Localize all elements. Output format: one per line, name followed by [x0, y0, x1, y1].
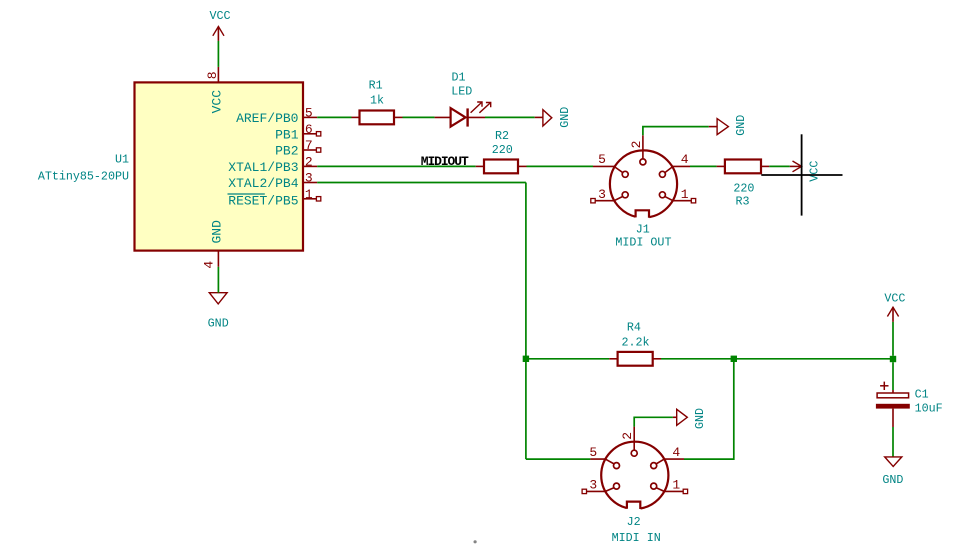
wire U1 pin3 XTAL2 horizontal	[317, 182, 526, 184]
wire R1 to D1	[403, 116, 435, 118]
wire bus down to J2 pin 5	[526, 458, 591, 460]
svg-text:D1: D1	[451, 71, 465, 85]
wire R2 to J1 pin 5	[527, 165, 594, 167]
svg-text:4: 4	[202, 261, 217, 269]
svg-text:XTAL2/PB4: XTAL2/PB4	[228, 176, 298, 191]
power symbol GND (above J2)	[673, 408, 707, 429]
svg-text:VCC: VCC	[884, 292, 905, 306]
svg-text:GND: GND	[558, 107, 572, 128]
connector J1 MIDI OUT (DIN-5)	[591, 135, 696, 249]
wire bus down to J2 pin 4	[684, 359, 734, 459]
svg-text:2: 2	[620, 432, 635, 440]
origin dot	[474, 540, 477, 543]
svg-text:1: 1	[681, 187, 689, 202]
U1 pin 8 VCC (top)	[205, 67, 220, 83]
wire J1 pin4 to R3	[690, 165, 717, 167]
svg-text:2: 2	[305, 155, 313, 170]
U1 pin 3 XTAL2/PB4	[228, 171, 317, 191]
U1 pin 7 PB2 (unconnected square)	[275, 138, 321, 158]
wire U1 pin5 to R1	[317, 116, 351, 118]
svg-text:3: 3	[598, 187, 606, 202]
power symbol GND (right of D1)	[535, 107, 572, 128]
svg-text:XTAL1/PB3: XTAL1/PB3	[228, 160, 298, 175]
svg-text:2: 2	[629, 141, 644, 149]
wire VCC to U1 pin 8	[217, 41, 219, 67]
svg-text:220: 220	[733, 182, 754, 196]
svg-text:U1: U1	[115, 153, 129, 167]
junction (525.9,358.8)	[523, 356, 529, 362]
svg-text:AREF/PB0: AREF/PB0	[236, 111, 298, 126]
resistor R2 220	[476, 129, 527, 173]
svg-text:5: 5	[598, 152, 606, 167]
junction (893,358.8)	[890, 356, 896, 362]
U1 pin 1 RESET/PB5 (unconnected square)	[228, 187, 321, 208]
svg-text:10uF: 10uF	[915, 402, 943, 416]
wire U1 pin 4 to GND	[217, 267, 219, 293]
wire R3 to VCC	[769, 165, 790, 167]
svg-text:R3: R3	[735, 195, 749, 209]
wire bottom bus right segment R4 to C1	[661, 358, 893, 360]
svg-text:MIDI IN: MIDI IN	[612, 531, 661, 545]
svg-text:GND: GND	[734, 115, 748, 136]
svg-text:J2: J2	[627, 515, 641, 529]
LED D1	[435, 71, 491, 127]
svg-text:1: 1	[672, 478, 680, 493]
resistor R1 1k	[352, 78, 403, 124]
wire vertical left drop to bottom bus	[525, 183, 527, 460]
svg-text:GND: GND	[210, 220, 225, 244]
svg-text:R1: R1	[369, 78, 383, 92]
graphic line vertical (black)	[801, 134, 803, 215]
graphic line horizontal (black)	[761, 174, 842, 176]
svg-text:5: 5	[305, 106, 313, 121]
svg-text:1k: 1k	[370, 93, 384, 107]
svg-text:R2: R2	[495, 129, 509, 143]
IC U1 ATtiny85-20PU body	[38, 82, 303, 250]
svg-text:PB1: PB1	[275, 127, 299, 142]
svg-text:VCC: VCC	[807, 161, 821, 182]
wire J1 pin2 to GND	[643, 127, 709, 136]
svg-text:6: 6	[305, 122, 313, 137]
wire C1 to GND	[892, 427, 894, 457]
capacitor C1 10uF (polarized)	[876, 382, 943, 427]
svg-text:PB2: PB2	[275, 144, 298, 159]
wire J2 pin2 to GND	[634, 417, 673, 426]
svg-text:4: 4	[672, 445, 680, 460]
junction (733.8,358.8)	[731, 356, 737, 362]
svg-text:ATtiny85-20PU: ATtiny85-20PU	[38, 169, 129, 183]
svg-text:GND: GND	[208, 316, 229, 330]
wire bottom bus left segment to R4	[526, 358, 609, 360]
wire D1 to GND	[485, 116, 535, 118]
power symbol VCC (top right, above C1)	[884, 292, 905, 322]
svg-text:GND: GND	[693, 408, 707, 429]
svg-text:220: 220	[492, 143, 513, 157]
U1 pin 4 GND (bottom)	[202, 251, 219, 269]
svg-text:4: 4	[681, 152, 689, 167]
power symbol VCC (top of U1)	[209, 9, 230, 41]
svg-text:7: 7	[305, 138, 313, 153]
U1 pin 6 PB1 (unconnected square)	[275, 122, 321, 142]
U1 pin 2 XTAL1/PB3	[228, 155, 317, 175]
svg-text:GND: GND	[882, 473, 903, 487]
wire VCC down to junction	[892, 322, 894, 356]
resistor R3 220	[717, 160, 770, 209]
power symbol VCC (right of R3)	[790, 161, 822, 182]
svg-text:VCC: VCC	[210, 90, 225, 114]
power symbol GND (above J1)	[709, 115, 748, 136]
U1 pin 5 AREF/PB0	[236, 106, 317, 126]
power symbol GND (below U1)	[208, 293, 229, 331]
svg-text:3: 3	[305, 171, 313, 186]
svg-text:R4: R4	[627, 320, 641, 334]
svg-text:RESET/PB5: RESET/PB5	[228, 193, 298, 208]
svg-text:J1: J1	[636, 223, 650, 237]
svg-text:1: 1	[305, 187, 313, 202]
svg-text:MIDI OUT: MIDI OUT	[615, 236, 671, 250]
svg-text:MIDIOUT: MIDIOUT	[421, 154, 469, 169]
svg-text:5: 5	[589, 445, 597, 460]
power symbol GND (below C1)	[882, 457, 903, 487]
svg-text:C1: C1	[915, 388, 929, 402]
svg-text:8: 8	[205, 71, 220, 79]
svg-text:2.2k: 2.2k	[621, 335, 649, 349]
resistor R4 2.2k	[609, 320, 661, 365]
wire U1 pin2 XTAL1 to R2	[317, 165, 476, 167]
svg-text:3: 3	[589, 478, 597, 493]
connector J2 MIDI IN (DIN-5)	[582, 427, 688, 545]
svg-text:LED: LED	[451, 84, 472, 98]
svg-text:VCC: VCC	[209, 9, 230, 23]
wire junction down to C1	[892, 362, 894, 390]
